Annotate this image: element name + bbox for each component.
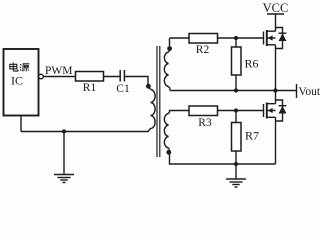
resistor R7	[232, 123, 242, 152]
svg-text:PWM: PWM	[45, 65, 72, 77]
wire secondary top terminal	[169, 38, 171, 46]
wire secondary top bottom terminal	[169, 87, 171, 91]
MOSFET Q1	[264, 28, 287, 91]
wire M2 drain to Vout rail	[275, 91, 277, 104]
wire junction to R7	[235, 111, 237, 123]
wire junction to R6	[235, 38, 237, 47]
svg-text:Vout: Vout	[299, 86, 320, 98]
MOSFET Q2	[264, 100, 287, 164]
wire secondary bottom terminal	[169, 148, 170, 150]
junction R2/R6	[234, 36, 238, 40]
svg-text:R2: R2	[196, 44, 210, 56]
svg-text:R7: R7	[245, 129, 259, 143]
label 源 (drawn strokes)	[20, 64, 30, 72]
resistor R6	[232, 47, 242, 75]
capacitor C1	[120, 70, 124, 82]
wire R7 to ground rail	[235, 151, 237, 164]
ground (secondary)	[226, 164, 246, 187]
wire top to R2	[170, 37, 190, 39]
junction R6/Vout	[234, 88, 238, 92]
wire R1 to C1	[104, 76, 121, 78]
power IC U1 box	[4, 49, 39, 116]
junction R3/R7	[234, 108, 238, 112]
Vout rail wire	[170, 90, 297, 92]
junction primary ground	[62, 129, 66, 133]
primary polarity dot	[146, 84, 151, 89]
svg-text:VCC: VCC	[263, 1, 289, 15]
resistor R3	[189, 106, 218, 116]
svg-text:R1: R1	[83, 82, 97, 94]
svg-text:C1: C1	[116, 83, 130, 95]
PWM output terminal circle	[39, 74, 44, 79]
wire C1 to transformer primary	[124, 77, 150, 90]
wire R3 to gate M2	[218, 110, 264, 112]
transformer secondary winding bottom	[164, 114, 168, 149]
wire PWM to R1	[43, 76, 75, 78]
transformer T1 primary winding	[151, 90, 156, 129]
wire R2 to gate M1	[218, 37, 264, 39]
svg-text:R3: R3	[198, 117, 212, 129]
junction M1 source / M2 drain	[273, 88, 277, 92]
secondary bottom polarity dot	[166, 150, 171, 155]
wire R6 to Vout rail	[235, 75, 237, 91]
Vout terminal tick	[296, 84, 298, 98]
secondary top polarity dot	[167, 46, 172, 51]
wire VCC to M1 drain	[275, 14, 277, 31]
transformer core	[157, 46, 160, 157]
svg-text:R6: R6	[245, 57, 259, 71]
transformer secondary winding top	[164, 52, 168, 87]
resistor R2	[189, 34, 218, 44]
wire IC bottom	[20, 116, 22, 132]
resistor R1	[76, 72, 104, 82]
wire primary bottom	[21, 129, 151, 132]
svg-text:IC: IC	[11, 74, 23, 88]
ground (primary)	[54, 132, 74, 183]
label 电 (drawn strokes)	[10, 63, 18, 72]
wire bottom coil to R3	[169, 111, 190, 114]
VCC terminal bar	[267, 13, 284, 15]
junction R7 ground	[234, 162, 238, 166]
